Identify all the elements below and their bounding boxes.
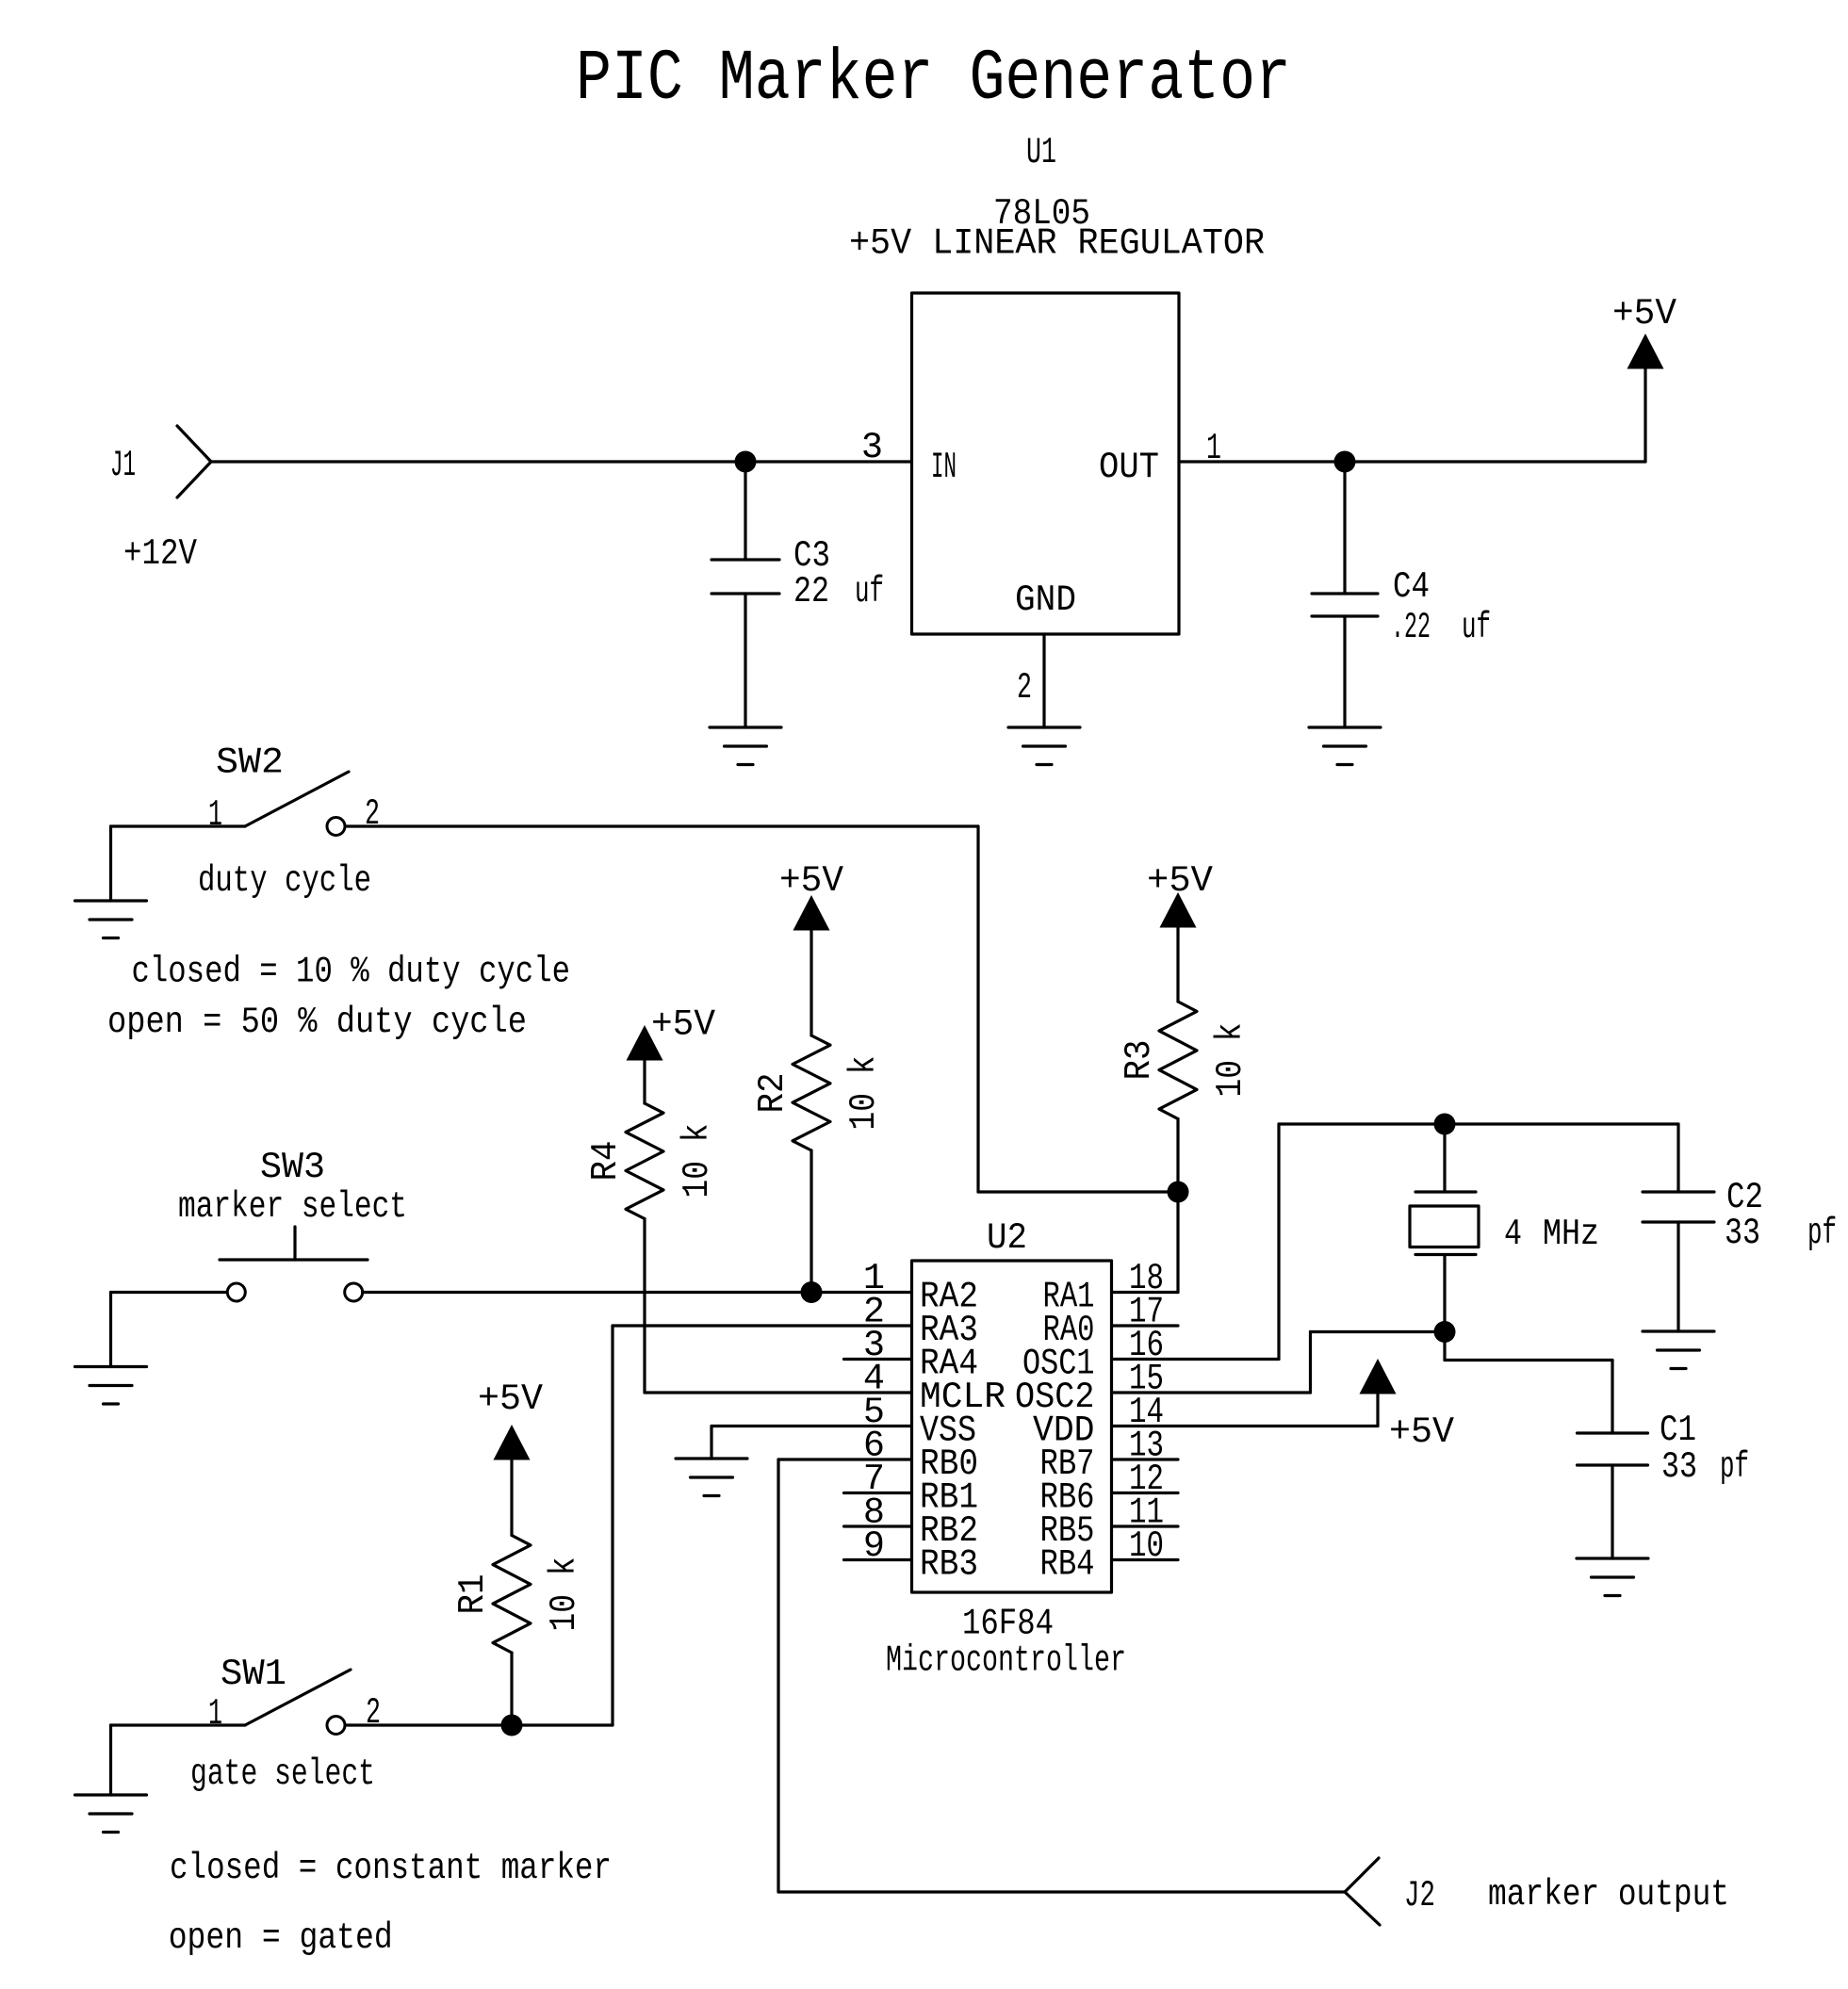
svg-text:10 k: 10 k — [544, 1557, 585, 1632]
ground for C1 — [1577, 1557, 1648, 1559]
svg-text:.22: .22 — [1391, 607, 1431, 648]
svg-text:U2: U2 — [987, 1217, 1027, 1259]
resistor R4 top lead — [643, 1061, 646, 1104]
svg-text:+5V: +5V — [1389, 1411, 1454, 1453]
resistor R2 — [793, 1035, 830, 1150]
node junction J1/C3 — [735, 451, 757, 473]
wire U2 OSC2 pin 15 to crystal bottom — [1112, 1391, 1311, 1394]
wire crystal bottom to C1 — [1443, 1332, 1446, 1361]
crystal Y1 top lead — [1443, 1124, 1446, 1192]
wire SW1 pin2 to R1/MCLR riser — [347, 1723, 613, 1726]
resistor R4 bottom lead to MCLR — [643, 1219, 646, 1394]
wire SW3 to U2 RA2 pin 1 — [363, 1291, 912, 1294]
capacitor C4 lead — [1343, 462, 1346, 594]
pin 9 RB3 of U2 — [844, 1558, 912, 1561]
node junction SW2/R3 — [1168, 1182, 1189, 1203]
ground for U1 — [1008, 725, 1080, 728]
connector J1 — [177, 426, 211, 462]
svg-text:marker select: marker select — [178, 1186, 407, 1228]
capacitor C1 lower lead — [1611, 1465, 1613, 1558]
svg-text:+5V LINEAR REGULATOR: +5V LINEAR REGULATOR — [849, 223, 1265, 265]
wire U2 RB0 pin 6 to J2 — [778, 1458, 912, 1460]
svg-text:16F84: 16F84 — [962, 1604, 1054, 1645]
power +5V symbol (VDD) — [1360, 1359, 1397, 1394]
ground for C4 — [1309, 725, 1381, 728]
wire U1 OUT to +5V — [1179, 460, 1645, 463]
switch SW2 pin 1 wire — [111, 824, 246, 827]
wire R4 to U2 MCLR pin 4 — [645, 1391, 912, 1394]
svg-text:3: 3 — [861, 427, 883, 468]
wire J1 to U1 IN — [211, 460, 912, 463]
pin 11 RB5 of U2 — [1112, 1524, 1179, 1527]
pin 18 RA1 of U2 — [1112, 1291, 1179, 1294]
crystal Y1 4 MHz — [1415, 1190, 1476, 1193]
svg-text:MHz: MHz — [1543, 1214, 1599, 1255]
pin 8 RB2 of U2 — [844, 1524, 912, 1527]
svg-text:RA1: RA1 — [1043, 1277, 1095, 1318]
capacitor C4 lower lead — [1343, 616, 1346, 727]
svg-text:1: 1 — [208, 1693, 222, 1735]
crystal Y1 bottom lead — [1443, 1255, 1446, 1332]
svg-text:1: 1 — [1206, 428, 1221, 469]
svg-text:2: 2 — [1017, 667, 1032, 709]
switch SW1 ground drop — [109, 1725, 112, 1795]
switch SW1 blade — [245, 1670, 351, 1725]
svg-text:+5V: +5V — [651, 1004, 715, 1046]
resistor R3 — [1159, 1002, 1197, 1119]
switch SW3 pushbutton actuator — [293, 1227, 296, 1260]
svg-text:RB3: RB3 — [920, 1544, 978, 1586]
svg-text:SW3: SW3 — [260, 1147, 325, 1188]
svg-text:+12V: +12V — [123, 533, 197, 575]
svg-text:SW1: SW1 — [221, 1654, 286, 1695]
svg-text:9: 9 — [863, 1525, 885, 1567]
svg-text:10 k: 10 k — [843, 1056, 885, 1131]
wire U2 VSS pin 5 to ground — [711, 1425, 912, 1427]
svg-text:closed = constant marker: closed = constant marker — [170, 1848, 612, 1889]
ground for C2 — [1643, 1329, 1714, 1332]
power +5V symbol (R4) — [627, 1025, 663, 1061]
resistor R1 — [493, 1536, 531, 1654]
svg-text:uf: uf — [1462, 607, 1491, 648]
ground for SW3 — [75, 1365, 147, 1368]
wire SW2 pin2 to R3 node — [347, 824, 978, 827]
svg-text:R3: R3 — [1119, 1040, 1160, 1081]
svg-text:closed = 10 % duty cycle: closed = 10 % duty cycle — [132, 952, 571, 993]
svg-text:33: 33 — [1661, 1446, 1697, 1488]
capacitor C3 lower lead — [744, 594, 746, 727]
svg-text:U1: U1 — [1026, 132, 1056, 173]
resistor R1 bottom lead — [510, 1653, 513, 1725]
svg-text:SW2: SW2 — [216, 742, 284, 784]
node junction R2/pin1 — [801, 1281, 823, 1303]
svg-text:uf: uf — [855, 571, 884, 612]
resistor R3 bottom lead to pin 18 — [1176, 1119, 1179, 1293]
pin 12 RB6 of U2 — [1112, 1492, 1179, 1494]
power +5V symbol (output) — [1627, 334, 1664, 369]
pin 13 RB7 of U2 — [1112, 1458, 1179, 1460]
microcontroller U2 16F84 box — [912, 1261, 1112, 1592]
resistor R2 top lead — [810, 931, 812, 1036]
node junction crystal top — [1434, 1114, 1456, 1135]
wire crystal top net — [1279, 1122, 1678, 1125]
node junction crystal bottom — [1434, 1321, 1456, 1343]
pin 17 RA0 of U2 — [1112, 1324, 1179, 1327]
pin 10 RB4 of U2 — [1112, 1558, 1179, 1561]
svg-text:33: 33 — [1725, 1213, 1760, 1254]
svg-text:+5V: +5V — [1147, 860, 1213, 902]
ground for SW1 — [75, 1793, 147, 1796]
svg-text:OUT: OUT — [1099, 447, 1159, 488]
svg-text:duty cycle: duty cycle — [198, 860, 371, 902]
wire U2 VDD pin 14 to +5V — [1112, 1425, 1379, 1427]
resistor R1 top lead — [510, 1460, 513, 1536]
pin 7 RB1 of U2 — [844, 1492, 912, 1494]
svg-text:C4: C4 — [1393, 566, 1430, 608]
svg-text:10 k: 10 k — [677, 1124, 718, 1198]
svg-text:+5V: +5V — [478, 1378, 543, 1420]
node junction OUT/C4 — [1334, 451, 1356, 473]
svg-text:PIC Marker Generator: PIC Marker Generator — [576, 39, 1291, 120]
svg-text:R4: R4 — [585, 1141, 627, 1182]
svg-text:pf: pf — [1720, 1446, 1749, 1488]
svg-text:open = gated: open = gated — [169, 1917, 393, 1959]
svg-text:C1: C1 — [1660, 1410, 1696, 1451]
capacitor C4 — [1312, 592, 1378, 595]
svg-text:Microcontroller: Microcontroller — [886, 1640, 1126, 1682]
capacitor C2 lower lead — [1676, 1222, 1679, 1331]
switch SW2 ground drop — [109, 826, 112, 901]
node junction R1/SW1 — [501, 1715, 523, 1736]
svg-text:4: 4 — [1504, 1214, 1522, 1255]
pin 2 stub of U1 GND — [1042, 634, 1045, 727]
svg-text:18: 18 — [1129, 1258, 1164, 1299]
svg-text:GND: GND — [1015, 579, 1076, 621]
svg-text:J2: J2 — [1404, 1875, 1435, 1916]
svg-text:R2: R2 — [752, 1073, 793, 1114]
ground for VSS — [676, 1457, 747, 1459]
svg-text:1: 1 — [208, 794, 222, 836]
svg-text:2: 2 — [365, 793, 380, 835]
resistor R4 — [626, 1103, 663, 1219]
capacitor C1 — [1578, 1431, 1648, 1434]
svg-text:10 k: 10 k — [1210, 1023, 1251, 1098]
switch SW3 left wire — [111, 1291, 228, 1294]
capacitor C3 lead — [744, 462, 746, 560]
switch SW3 contact 2 — [345, 1283, 363, 1301]
svg-text:R1: R1 — [452, 1574, 494, 1615]
switch SW1 pin 1 wire — [111, 1723, 246, 1726]
pin 3 RA4 of U2 — [844, 1358, 912, 1361]
svg-text:J1: J1 — [110, 445, 136, 486]
wire U2 OSC1 pin 16 to crystal — [1112, 1358, 1280, 1361]
svg-text:IN: IN — [931, 447, 957, 488]
switch SW2 contact — [327, 818, 345, 836]
capacitor C2 top lead — [1676, 1124, 1679, 1192]
regulator U1 78L05 box — [912, 293, 1180, 634]
svg-text:marker output: marker output — [1488, 1874, 1729, 1916]
switch SW1 contact — [327, 1717, 345, 1735]
svg-text:gate select: gate select — [190, 1753, 375, 1795]
wire riser to +5V arrow — [1644, 369, 1646, 463]
capacitor C3 — [711, 558, 779, 561]
svg-text:pf: pf — [1807, 1213, 1837, 1254]
wire SW1 to U2 RA3 pin 2 — [613, 1324, 912, 1327]
switch SW2 blade — [245, 772, 349, 826]
connector J2 — [1345, 1858, 1379, 1892]
svg-text:2: 2 — [366, 1692, 381, 1734]
resistor R2 bottom lead — [810, 1150, 812, 1293]
switch SW3 contact 1 — [227, 1283, 245, 1301]
svg-text:open = 50 % duty cycle: open = 50 % duty cycle — [107, 1002, 527, 1043]
resistor R3 top lead — [1176, 928, 1179, 1003]
ground for SW2 — [75, 899, 147, 902]
capacitor C2 — [1643, 1190, 1714, 1193]
svg-text:22: 22 — [793, 571, 829, 612]
ground for C3 — [710, 725, 781, 728]
svg-text:+5V: +5V — [1612, 293, 1676, 334]
switch SW3 ground drop — [109, 1293, 112, 1367]
